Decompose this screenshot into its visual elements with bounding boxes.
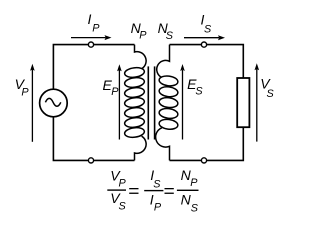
svg-text:S: S [119, 201, 127, 213]
svg-text:P: P [139, 30, 147, 42]
AC source V1 [40, 89, 68, 117]
svg-text:S: S [191, 202, 199, 214]
svg-text:P: P [111, 86, 119, 98]
resistor load [237, 78, 249, 127]
arrow E_S [182, 70, 184, 140]
node top primary [88, 42, 93, 47]
svg-text:S: S [267, 88, 275, 100]
svg-text:S: S [153, 179, 161, 191]
arrow I_S [184, 37, 219, 39]
primary coil N_P loops [124, 67, 145, 139]
arrow V_S [256, 69, 258, 142]
svg-text:P: P [92, 22, 100, 34]
svg-text:I: I [88, 11, 92, 27]
svg-text:P: P [21, 87, 29, 99]
wire bottom-left primary [53, 117, 134, 161]
svg-text:P: P [190, 177, 198, 189]
svg-text:P: P [154, 202, 162, 214]
secondary coil exit [156, 128, 170, 161]
svg-text:S: S [166, 30, 174, 42]
node bottom secondary [201, 158, 206, 163]
sine wave [45, 98, 60, 106]
svg-text:P: P [119, 178, 127, 190]
arrow V_P [31, 70, 33, 142]
equals sign 1 [129, 188, 138, 189]
node bottom primary [88, 158, 93, 163]
secondary coil entry [157, 45, 170, 78]
wire bottom-right secondary [170, 127, 244, 160]
equals sign 2 [165, 188, 174, 189]
wire top-left primary [53, 45, 134, 90]
primary coil entry [135, 45, 147, 69]
primary coil exit [135, 136, 147, 160]
arrow I_P [71, 37, 106, 39]
arrow E_P [118, 70, 120, 140]
secondary coil N_S loops [159, 75, 179, 130]
wire top-right secondary [170, 45, 244, 78]
transformer core [147, 66, 149, 139]
node top secondary [201, 42, 206, 47]
svg-text:S: S [195, 86, 203, 98]
svg-text:S: S [204, 23, 212, 35]
